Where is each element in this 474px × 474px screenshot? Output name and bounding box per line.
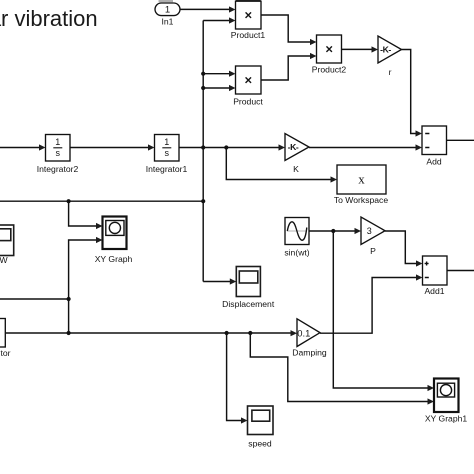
wire branch line C down to speed [227,333,243,421]
node junction sin branch [331,229,335,233]
svg-text:P: P [370,246,376,256]
node junction V1/Product in2 [201,86,205,90]
left cut-off block tor [0,319,5,348]
svg-text:tor: tor [0,348,10,358]
wire V1 top elbow to Product1 in2 [203,20,231,22]
wire branch to Product in2 [203,87,231,89]
Product1 block [236,1,262,29]
wire line A branch to XY Graph in1 [69,201,98,226]
wire Integrator1 out to gain K [179,147,281,149]
wire branch to Product in1 [203,73,231,75]
svg-text:1: 1 [55,137,60,147]
node junction line C tee [67,331,71,335]
svg-text:Product2: Product2 [312,65,347,75]
XY Graph scope block [103,217,127,250]
wire Product2 out to gain r [342,48,374,50]
wire gain K out to Add in2 [309,147,418,149]
XY Graph1 scope block [434,379,459,413]
Product2 block [317,35,342,63]
gain K triangle [285,134,309,161]
node junction XYG1 branch [248,331,252,335]
svg-text:s: s [56,148,61,158]
In1 port block [155,3,180,16]
To Workspace block [337,165,386,194]
svg-text:0.1: 0.1 [297,327,310,338]
svg-text:×: × [245,8,253,23]
svg-text:ar vibration: ar vibration [0,6,98,31]
svg-text:×: × [245,72,253,87]
wire line A (to XY Graph / displacement trunk) from left edge [0,200,203,202]
svg-text:sin(wt): sin(wt) [284,247,309,257]
svg-text:r: r [389,67,392,77]
svg-text:speed: speed [248,439,272,449]
wire gain P out to Add1 plus [385,231,418,264]
Damping gain triangle [297,319,320,347]
svg-text:Integrator1: Integrator1 [146,164,188,174]
svg-text:Product1: Product1 [231,30,266,40]
svg-text:K: K [293,164,299,174]
wire Damping out to Add1 minus [320,278,418,334]
node junction V1/Product in1 [201,72,205,76]
svg-text:Integrator2: Integrator2 [37,164,79,174]
node junction line A / V1 [201,199,205,203]
svg-text:-K-: -K- [288,142,299,152]
wire gain r out to Add in1 [402,50,418,134]
svg-text:Damping: Damping [292,347,327,357]
Add1 block [423,256,448,285]
Integrator2 block [46,135,71,162]
svg-text:Add: Add [426,157,442,167]
node junction V1/main line [201,145,205,149]
wire Add output to right edge [447,139,474,141]
wire line B from left edge [0,298,69,300]
wire In1 to Product1 in1 [180,8,231,10]
svg-text:1: 1 [165,5,170,16]
speed scope block [248,406,274,435]
node junction line B tee [67,297,71,301]
svg-text:x: x [358,172,365,187]
svg-text:XY Graph1: XY Graph1 [425,414,468,424]
svg-text:In1: In1 [162,17,174,27]
svg-text:To Workspace: To Workspace [334,195,389,205]
svg-text:1: 1 [164,137,169,147]
wire branch to To Workspace [226,148,332,180]
wire Integrator2 out to Integrator1 [70,147,150,149]
wire Product1 out to Product2 in1 [261,15,312,42]
svg-text:×: × [325,41,333,56]
wire into Integrator2 from left edge [0,147,41,149]
wire line C from cut block to Damping [5,332,292,334]
gain r triangle [378,36,402,63]
dark cut-off fragment above Product1 [236,0,261,1]
wire from line C up to XY Graph in2 [69,240,98,333]
Integrator1 block [155,135,180,162]
grey cut-off fragment above In1 [159,0,174,2]
Product block [236,66,262,94]
sin(wt) sine wave source block [285,218,309,245]
svg-text:s: s [165,148,170,158]
wire V1 bottom elbow to Displacement [203,281,232,283]
svg-text:Displacement: Displacement [222,299,275,309]
wire Product out to Product2 in2 [261,56,312,80]
gain P triangle [361,217,385,245]
svg-text:Add1: Add1 [424,286,444,296]
Add block [422,126,447,155]
svg-text:W: W [0,255,8,265]
node junction speed branch [225,331,229,335]
node junction To-Workspace branch [224,145,228,149]
wire branch line C to XY Graph1 in2 [250,333,429,402]
wire sin out to gain P [309,230,357,232]
svg-text:XY Graph: XY Graph [95,254,133,264]
left cut-off scope block W [0,225,14,256]
wire Add1 output to right edge [447,270,474,272]
Displacement scope block [236,267,260,297]
wire vertical trunk V1 (x signal from Integrator1) [202,21,204,282]
wire sin branch down to XY Graph1 in1 [333,231,429,388]
svg-text:Product: Product [233,96,263,106]
svg-text:3: 3 [367,226,372,236]
svg-text:-K-: -K- [380,45,391,55]
node junction line A / XY branch [67,199,71,203]
